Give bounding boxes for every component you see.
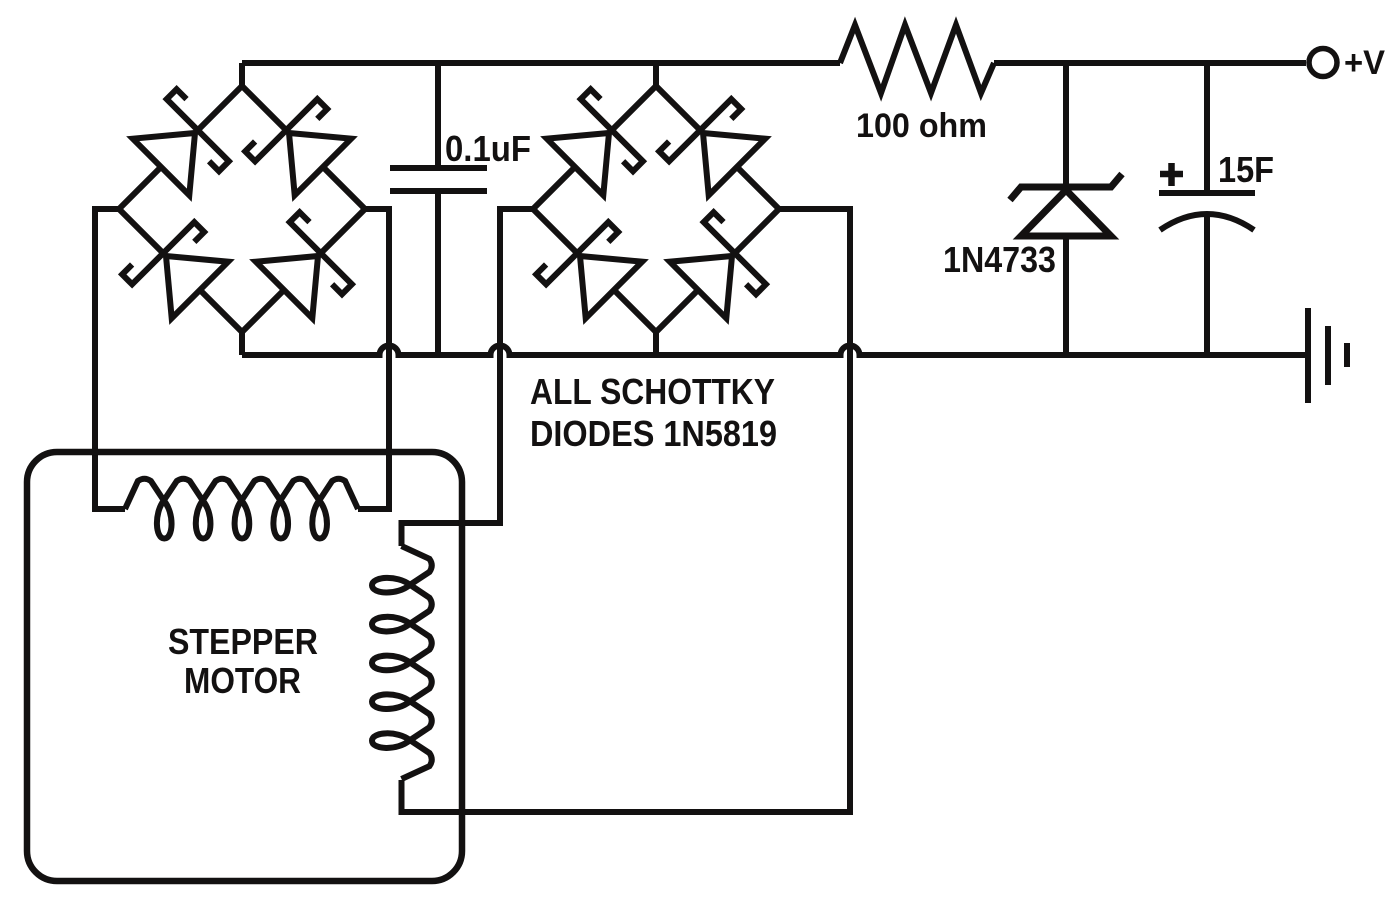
svg-text:+V: +V <box>1344 44 1385 82</box>
svg-text:MOTOR: MOTOR <box>184 660 301 701</box>
wire 0.1uF bottom lead <box>435 191 441 355</box>
schottky diode D1c (bottom-left) <box>122 222 228 318</box>
supercapacitor C2 15F plates <box>1159 193 1255 230</box>
wire bridge2 top vertex riser <box>653 63 659 86</box>
wire bridge2 bottom vertex riser <box>653 332 659 355</box>
schottky diode D1d (bottom-right) <box>256 212 352 318</box>
schottky diode D1b (right-top) <box>245 99 351 195</box>
bridge D1 diamond wiring <box>119 86 365 332</box>
wire winding A right lead to bridge1 right vertex <box>358 209 389 509</box>
bridge D2 diamond wiring <box>533 86 779 332</box>
wire winding B bottom lead to bridge2 right vertex <box>402 209 851 812</box>
wire 15F top lead <box>1204 63 1210 193</box>
capacitor C1 0.1uF plates <box>390 168 487 191</box>
svg-text:15F: 15F <box>1218 149 1274 190</box>
terminal +V output circle <box>1309 49 1337 77</box>
wire 0.1uF top lead <box>435 63 441 168</box>
svg-text:DIODES 1N5819: DIODES 1N5819 <box>530 413 777 454</box>
svg-text:0.1uF: 0.1uF <box>445 128 531 169</box>
wire 15F bottom lead <box>1204 214 1210 355</box>
wire zener bottom lead <box>1063 236 1069 355</box>
wire bridge2 left vertex to winding B top lead <box>402 209 534 546</box>
wire bridge1 left vertex to winding A left lead <box>95 209 125 509</box>
wire top rail right segment <box>994 60 1306 66</box>
wire bridge1 bottom vertex riser <box>239 332 245 355</box>
wire bridge1 top vertex riser <box>239 63 245 86</box>
wire zener top lead <box>1063 63 1069 190</box>
svg-text:ALL SCHOTTKY: ALL SCHOTTKY <box>530 371 775 412</box>
stepper motor outline box <box>27 452 462 881</box>
schottky diode D2d (bottom-right) <box>670 212 766 318</box>
svg-text:1N4733: 1N4733 <box>943 239 1056 280</box>
wire top rail left segment <box>242 60 840 66</box>
schottky diode D2b (right-top) <box>659 99 765 195</box>
svg-text:100 ohm: 100 ohm <box>856 107 987 145</box>
ground symbol <box>1308 308 1347 403</box>
inductor winding B (vertical coil) <box>372 546 432 779</box>
zener diode Z1 1N4733 <box>1010 174 1122 236</box>
resistor R1 100 ohm zigzag <box>840 25 994 93</box>
schottky diode D2c (bottom-left) <box>536 222 642 318</box>
schottky diode D2a (left-top) <box>547 89 643 195</box>
schottky diode D1a (left-top) <box>133 89 229 195</box>
svg-text:STEPPER: STEPPER <box>168 621 318 662</box>
wire bottom rail with wire hops <box>242 346 1305 356</box>
inductor winding A (horizontal coil) <box>125 479 358 539</box>
polarity plus sign for 15F <box>1160 163 1183 186</box>
